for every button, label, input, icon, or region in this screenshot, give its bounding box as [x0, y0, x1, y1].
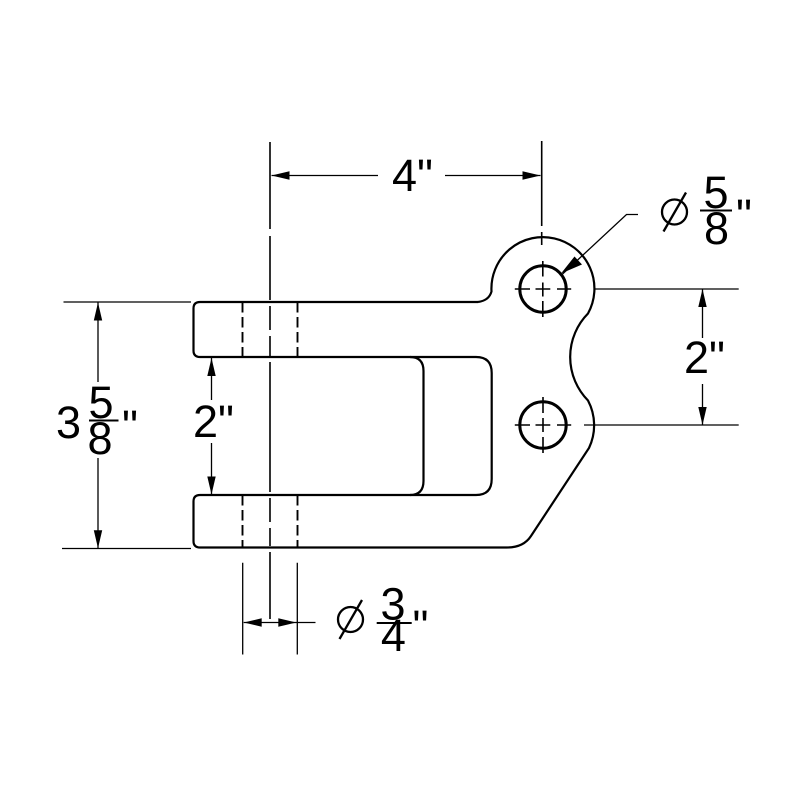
diameter symbol 3/4 — [338, 600, 363, 639]
5/8 leader arrow — [561, 257, 582, 274]
svg-text:2": 2" — [193, 396, 234, 447]
3/4 left arrow — [244, 618, 262, 626]
dimension lines — [62, 176, 739, 655]
svg-text:": " — [122, 401, 138, 452]
dim 3/4 line — [244, 622, 316, 624]
dim 2in right vertical line — [702, 289, 704, 425]
svg-text:3: 3 — [56, 397, 81, 448]
inner slot profile B — [476, 357, 492, 495]
part outline: bottom edge and bottom prong — [194, 495, 508, 548]
diameter symbol 5/8 — [662, 193, 687, 232]
centerlines — [270, 141, 571, 619]
svg-text:4": 4" — [392, 150, 433, 201]
arrowheads — [94, 171, 707, 626]
4in left arrow — [272, 171, 290, 179]
part outline: top prong and top edge — [194, 302, 479, 357]
svg-text:8: 8 — [87, 413, 112, 464]
fraction bars — [89, 211, 732, 624]
2in right top arrow — [698, 289, 706, 307]
bottom hole — [520, 402, 566, 448]
svg-text:": " — [736, 190, 752, 241]
svg-text:": " — [413, 601, 429, 652]
inner slot profile A — [410, 357, 424, 495]
bottom hole vertical crosshair — [542, 397, 544, 453]
2in inner top arrow — [207, 358, 215, 376]
main vertical centerline x=270 — [269, 142, 271, 619]
svg-text:8: 8 — [704, 203, 729, 254]
top hole — [520, 266, 566, 312]
hidden hole lines in prongs (dashed) — [243, 302, 298, 548]
top hole horizontal crosshair — [515, 288, 571, 290]
bottom hole horizontal crosshair — [515, 424, 571, 426]
dim 2in right extension lines — [584, 289, 739, 425]
dim 3-5/8 vertical line — [97, 303, 99, 549]
svg-text:2": 2" — [684, 332, 725, 383]
leader line for 5/8 — [562, 215, 639, 276]
dim 3/4 extension lines — [243, 563, 298, 655]
dim 4in line — [272, 175, 541, 177]
svg-text:4: 4 — [381, 610, 406, 661]
dim 3-5/8 extension lines — [62, 302, 191, 549]
3-5/8 bottom arrow — [94, 530, 102, 548]
top hole vertical centerline — [542, 141, 543, 317]
part outline: right side with hole bosses — [478, 237, 594, 547]
3/4 right arrow — [278, 618, 296, 626]
4in right arrow — [523, 171, 541, 179]
2in right bottom arrow — [698, 407, 706, 425]
2in inner bottom arrow — [207, 477, 215, 495]
dim 2in inner vertical line — [211, 358, 213, 495]
3-5/8 top arrow — [94, 303, 102, 321]
